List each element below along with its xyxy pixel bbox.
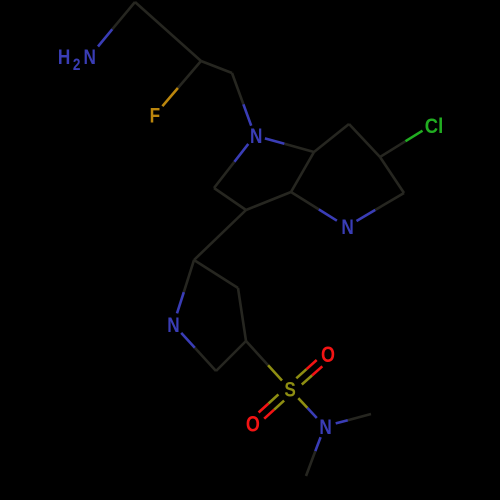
wire ring C-C top — [194, 260, 238, 288]
svg-text:H: H — [58, 45, 70, 69]
pyridine N4 label — [341, 215, 353, 239]
bond N-CH3 right — [336, 420, 348, 423]
double bond S=O lower — [274, 401, 284, 410]
wire ring C-C right — [238, 288, 246, 341]
oxygen O2 label — [246, 413, 260, 437]
wire C3-C3a — [246, 192, 291, 210]
double bond S=O upper — [296, 369, 306, 378]
bond C3a-N4 — [291, 192, 319, 209]
svg-text:O: O — [246, 413, 260, 437]
wire C6-C7 — [349, 124, 380, 157]
svg-text:F: F — [150, 104, 161, 128]
svg-text:N: N — [250, 124, 262, 148]
label H of H2N — [58, 45, 70, 69]
bond N1-C7a — [265, 138, 285, 143]
bond C-S — [246, 341, 268, 365]
wire CH2-CHF — [135, 2, 201, 61]
bond N-CH3 down — [315, 437, 320, 451]
bond C-N bottom ring — [184, 260, 194, 292]
bond N4-C5 — [357, 210, 376, 221]
wire C7-C7a — [314, 124, 349, 152]
bond C-F — [178, 61, 201, 88]
bond S-N — [298, 398, 307, 408]
bond N-C bottom ring — [181, 333, 195, 348]
svg-text:S: S — [284, 378, 295, 402]
wire H2N-CH2 — [98, 29, 112, 46]
wire CHF-CH2 — [201, 61, 232, 73]
bond N1-C2 — [234, 144, 248, 162]
label 2 subscript of H2N — [73, 56, 81, 75]
wire C2-C3 — [214, 188, 246, 210]
fluorine label — [150, 104, 161, 128]
svg-text:N: N — [319, 415, 331, 439]
pyrrole N1 label — [250, 124, 262, 148]
wire biaryl link — [194, 210, 246, 260]
svg-text:N: N — [167, 313, 179, 337]
wire C5-C6 — [380, 157, 404, 193]
svg-text:N: N — [341, 215, 353, 239]
bond CH2-N1 — [232, 73, 243, 104]
sulfur label — [284, 378, 295, 402]
oxygen O1 label — [321, 343, 335, 367]
svg-text:O: O — [321, 343, 335, 367]
sulfonamide N label — [319, 415, 331, 439]
wire ring C-C — [216, 341, 246, 371]
svg-text:2: 2 — [73, 56, 81, 75]
svg-text:Cl: Cl — [425, 115, 444, 139]
chlorine label — [425, 115, 444, 139]
svg-text:N: N — [83, 45, 95, 69]
amine nitrogen label — [83, 45, 95, 69]
bottom ring N label — [167, 313, 179, 337]
bond C6-Cl — [380, 141, 406, 157]
wire C3a-C7a fusion — [291, 152, 314, 192]
